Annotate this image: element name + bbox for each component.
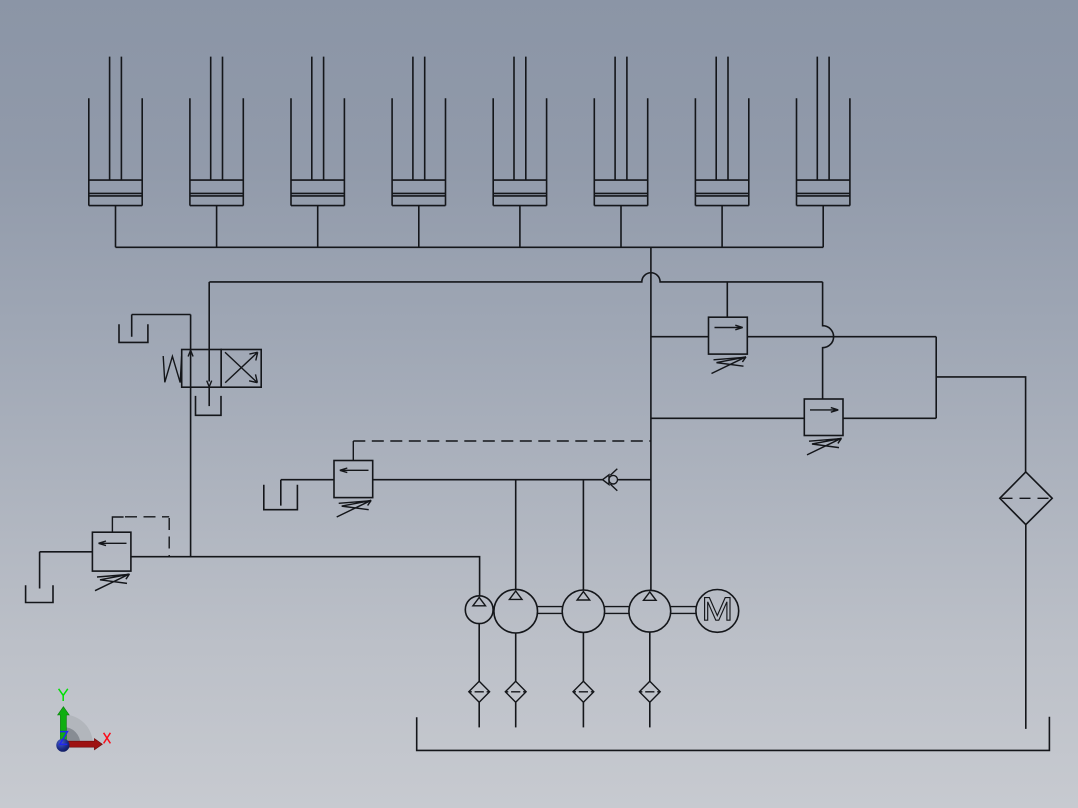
wire V4 drain to tank: [40, 552, 93, 589]
wire V1 inlet: [651, 336, 709, 338]
directional valve DV left position box: [182, 350, 222, 388]
check valve CV seat lines: [610, 469, 617, 491]
pump P3 circle: [562, 590, 604, 632]
triad Y axis arrow (green): [58, 707, 70, 744]
wire CYL5 stem: [519, 206, 521, 248]
wire DV P-port line: [208, 282, 210, 382]
cylinder CYL8: [797, 57, 850, 206]
valve V4 body: [92, 532, 130, 571]
relief valve V2 body: [804, 399, 843, 436]
triad quarter arc outer: [63, 715, 93, 745]
shaft P3-P4: [605, 607, 629, 614]
wire return branch to filter: [936, 377, 1025, 472]
pump P1 circle: [465, 596, 493, 624]
valve V4 spring: [97, 575, 128, 584]
wire DV tank stub: [208, 387, 210, 406]
directional valve DV crossed arrows: [225, 352, 258, 383]
tank symbol T4: [26, 585, 53, 602]
triad origin sphere (blue): [56, 739, 69, 752]
wire pilot header with hop over P line: [209, 273, 822, 282]
check valve CV seat triangle: [603, 475, 609, 485]
pump P1 outlet triangle: [473, 597, 486, 605]
wire strainer S2 to tank: [515, 702, 517, 727]
shaft P2-P3: [538, 607, 563, 614]
wire CV to P line: [618, 479, 651, 481]
relief valve V2 adjust arrow: [807, 438, 842, 455]
valve V4 adjust arrow: [95, 574, 130, 591]
wire pump P1 suction: [478, 624, 480, 682]
directional valve DV down-flow arrowhead: [207, 381, 212, 387]
valve V3 spring: [339, 501, 370, 510]
wire CYL8 stem: [822, 206, 824, 248]
cylinder CYL2: [190, 57, 243, 206]
strainer S2 element line: [506, 691, 526, 693]
filter F1 body: [1000, 472, 1052, 525]
pump P2 outlet triangle: [509, 591, 522, 599]
cylinder CYL5: [493, 57, 546, 206]
wire DV drain line: [132, 315, 191, 337]
cylinder CYL3: [291, 57, 344, 206]
pump P3 outlet triangle: [577, 592, 590, 600]
wire V3 pilot stub: [352, 441, 354, 461]
wire strainer S3 to tank: [582, 702, 584, 727]
wire V2 inlet: [651, 417, 804, 419]
wire DV A-port line: [190, 315, 192, 557]
valve V3 flow arrow: [340, 468, 369, 473]
wire pump P3 discharge riser: [582, 480, 584, 590]
wire V4 pilot elbow: [112, 517, 123, 532]
valve V4 flow arrow: [99, 541, 127, 546]
strainer S3 body: [573, 681, 594, 702]
wire pump P2 discharge riser: [515, 480, 517, 590]
wire filter F1 to tank: [1025, 525, 1027, 729]
relief valve V2 spring: [809, 439, 840, 448]
triad X axis arrow (red): [63, 739, 102, 750]
wire pump P2 suction: [515, 633, 517, 681]
wire V2 outlet: [843, 417, 936, 419]
directional valve DV up-flow arrowhead: [188, 350, 193, 356]
wire CYL4 stem: [418, 206, 420, 248]
wire V3 drain to tank: [281, 480, 334, 506]
tank symbol T2 below DV: [196, 396, 222, 415]
wire pump P3 suction: [582, 632, 584, 681]
valve V3 body: [334, 461, 373, 498]
wire V3 outlet to pump gallery: [373, 479, 603, 481]
wire V2 pilot drop with hop over V1 outlet: [823, 282, 834, 399]
wire V1 outlet: [747, 336, 936, 338]
relief valve V1 body: [709, 317, 748, 354]
strainer S4 body: [639, 681, 660, 702]
pump P4 circle: [629, 590, 671, 632]
cylinder CYL6: [594, 57, 647, 206]
motor M1 letter: [705, 598, 730, 621]
pilot line V4 (dashed): [125, 517, 169, 557]
triad Y label: [59, 689, 68, 701]
triad quarter arc inner: [63, 727, 80, 744]
strainer S3 element line: [573, 691, 593, 693]
wire right return riser: [935, 337, 937, 419]
wire CYL2 stem: [216, 206, 218, 248]
wire CYL6 stem: [620, 206, 622, 248]
triad Z label: [60, 732, 68, 745]
directional valve DV right position box: [221, 350, 261, 388]
wire manifold header: [116, 246, 824, 248]
strainer S4 element line: [640, 691, 660, 693]
triad X label: [104, 733, 111, 744]
cylinder CYL1: [89, 57, 142, 206]
valve V3 adjust arrow: [337, 500, 372, 517]
wire main pressure line P (pump 4 to manifold): [650, 247, 652, 590]
strainer S1 element line: [469, 691, 489, 693]
tank symbol T1: [119, 324, 148, 342]
relief valve V2 flow arrow: [810, 408, 838, 413]
wire pump P1 gallery: [131, 557, 480, 596]
reservoir tank outline: [417, 717, 1050, 751]
wire CYL1 stem: [115, 206, 117, 248]
wire strainer S4 to tank: [649, 702, 651, 727]
motor M1 circle: [696, 590, 739, 633]
relief valve V1 adjust arrow: [712, 357, 747, 374]
strainer S1 body: [469, 681, 490, 702]
wire pump P4 suction: [649, 632, 651, 681]
solenoid coil of DV: [163, 356, 181, 383]
pump P2 circle: [494, 589, 538, 633]
shaft P4-motor: [671, 607, 696, 614]
check valve CV ball: [609, 475, 618, 484]
cylinder CYL4: [392, 57, 445, 206]
cylinder CYL7: [695, 57, 748, 206]
wire CYL3 stem: [317, 206, 319, 248]
pump P4 outlet triangle: [644, 592, 657, 600]
relief valve V1 flow arrow: [715, 325, 743, 330]
wire V1 pilot drop: [726, 282, 728, 317]
wire CYL7 stem: [721, 206, 723, 248]
pilot line to V3 (dashed): [353, 440, 651, 442]
strainer S2 body: [505, 681, 526, 702]
wire strainer S1 to tank: [478, 702, 480, 727]
relief valve V1 spring: [714, 357, 745, 366]
tank symbol T3: [264, 485, 298, 510]
filter F1 element line: [1002, 497, 1051, 499]
